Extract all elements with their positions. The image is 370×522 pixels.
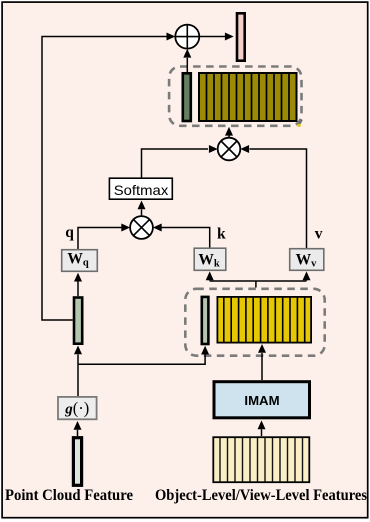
g function box <box>58 397 97 419</box>
svg-text:k: k <box>217 226 226 243</box>
dashed box attended features <box>169 67 301 126</box>
wire feature block to IMAM <box>261 429 263 436</box>
svg-text:IMAM: IMAM <box>244 393 279 408</box>
wire v to upper multiplier <box>250 149 307 248</box>
wire feedback from query feature to adder <box>42 37 167 321</box>
wire lower multiplier to softmax <box>141 210 143 217</box>
artifact handle at dashed box corner <box>298 120 302 127</box>
softmax box <box>109 178 172 199</box>
svg-text:Softmax: Softmax <box>114 182 169 198</box>
wire point cloud bar to g <box>77 430 79 436</box>
svg-text:Object-Level/View-Level Featur: Object-Level/View-Level Features <box>155 487 367 504</box>
object/view feature block (pale yellow striped) <box>213 437 309 482</box>
Wv box <box>290 249 324 271</box>
point cloud feature bar (light sage) <box>73 438 81 486</box>
wire split to Wk and Wv <box>210 281 307 288</box>
dashed box memory features <box>185 289 324 356</box>
wire IMAM to memory block <box>261 353 263 380</box>
lower multiplier circle (times) <box>130 216 153 239</box>
attended query bar (dark green) <box>183 73 191 121</box>
svg-text:v: v <box>315 226 323 243</box>
svg-text:g(·): g(·) <box>64 399 89 418</box>
Wq box <box>62 250 98 272</box>
svg-text:q: q <box>65 224 74 241</box>
wire query bar to Wq <box>77 282 79 297</box>
svg-text:Point Cloud Feature: Point Cloud Feature <box>5 487 133 504</box>
wire q to lower multiplier <box>78 228 122 250</box>
adder circle (plus) <box>175 25 199 49</box>
wire g to query bar <box>77 355 79 397</box>
wire k to lower multiplier <box>162 228 210 248</box>
wire attn product to dashed box <box>228 135 230 138</box>
memory query bar (sage) <box>202 297 209 344</box>
wire softmax to upper multiplier <box>142 149 209 178</box>
query feature bar (mid sage) <box>74 298 82 344</box>
wire attended bar to adder <box>186 58 188 72</box>
Wk box <box>194 248 226 270</box>
wire point feature branch into memory bar <box>78 355 205 365</box>
IMAM box <box>214 382 310 418</box>
attended feature block (olive striped) <box>199 73 297 121</box>
upper multiplier circle (times) <box>218 138 241 161</box>
wire adder to output bar <box>199 36 225 38</box>
memory feature block (yellow striped) <box>217 297 311 343</box>
output bar (pink) <box>237 13 245 60</box>
